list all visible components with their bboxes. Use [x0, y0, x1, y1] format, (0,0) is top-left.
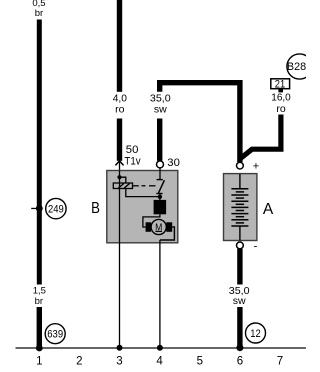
- svg-text:6: 6: [237, 356, 243, 368]
- svg-text:50: 50: [126, 144, 139, 156]
- starter B body: [107, 171, 178, 243]
- wire 1,5 br lower segment track1: [37, 307, 42, 349]
- rail dot track3: [117, 345, 123, 351]
- svg-text:B: B: [91, 200, 100, 217]
- terminal box 21: [271, 78, 290, 90]
- stub tick at connection 249: [31, 208, 36, 209]
- wire 0,5 br upper segment track1: [37, 20, 42, 285]
- horizontal battery feed wire 35,0 top: [160, 83, 240, 162]
- contact block: [154, 200, 167, 214]
- motor right lead loop: [160, 227, 175, 240]
- coil ground lead to rail track3: [119, 177, 120, 348]
- svg-text:639: 639: [47, 329, 63, 341]
- lead junction to contact block: [159, 194, 160, 201]
- rail dot track1: [36, 345, 43, 352]
- svg-text:16,0: 16,0: [271, 92, 291, 104]
- wire 35,0 sw mid segment to terminal 30: [157, 119, 162, 161]
- rail dot track6: [236, 344, 243, 351]
- motor ground lead to rail track4: [159, 240, 160, 348]
- svg-text:2: 2: [76, 356, 82, 368]
- switch output junction dot: [158, 195, 162, 199]
- svg-text:ro: ro: [115, 104, 124, 116]
- stub below box 21: [278, 89, 283, 93]
- terminal 30 circle: [157, 161, 164, 168]
- battery internal bottom lead: [239, 226, 240, 240]
- battery A body: [224, 174, 257, 241]
- solenoid coil hatched winding: [113, 183, 132, 189]
- motor circle M: [151, 219, 166, 234]
- svg-text:-: -: [254, 241, 258, 253]
- switch blade: [158, 180, 164, 193]
- svg-text:sw: sw: [154, 104, 167, 116]
- connection circle B289 (cut at edge): [287, 54, 312, 79]
- rail dot track4: [157, 345, 163, 351]
- connection circle 249: [46, 198, 66, 218]
- lead contact block to motor left brush: [143, 214, 160, 227]
- svg-text:B289: B289: [287, 61, 306, 73]
- svg-text:br: br: [35, 296, 43, 307]
- wire 35,0 sw battery minus segment track6: [237, 249, 242, 285]
- svg-text:+: +: [253, 161, 259, 173]
- wire 35,0 sw lower to rail track6: [237, 307, 242, 348]
- solenoid top lead: [120, 177, 126, 183]
- lead from connector 50 into starter: [119, 162, 120, 178]
- svg-text:ro: ro: [276, 103, 285, 115]
- motor left brush: [146, 222, 152, 232]
- battery minus terminal: [237, 242, 244, 249]
- svg-text:4: 4: [156, 356, 163, 368]
- lead terminal 30 into starter: [159, 168, 160, 180]
- wire 16,0 ro from box 21 to battery plus: [240, 115, 281, 159]
- svg-text:1: 1: [36, 356, 42, 368]
- junction dot connection 249: [36, 205, 43, 212]
- svg-text:br: br: [35, 8, 43, 19]
- connector T1v arrow: [115, 161, 123, 166]
- lead 50 inside starter: [119, 171, 120, 178]
- svg-text:T1v: T1v: [124, 156, 140, 168]
- svg-text:3: 3: [116, 356, 122, 368]
- motor right brush: [166, 222, 172, 232]
- battery plus terminal: [237, 162, 244, 169]
- svg-text:7: 7: [277, 356, 283, 368]
- svg-text:30: 30: [167, 157, 180, 169]
- svg-text:A: A: [263, 201, 274, 218]
- svg-text:249: 249: [48, 204, 64, 216]
- switch upper contact bar: [157, 179, 163, 180]
- connection circle 639: [45, 324, 65, 344]
- switch lower contact bar: [156, 193, 162, 194]
- connection circle 12: [246, 323, 266, 343]
- svg-text:sw: sw: [233, 295, 246, 307]
- wire 4,0 ro lower segment track3: [117, 119, 122, 161]
- svg-text:12: 12: [250, 328, 261, 340]
- svg-text:21: 21: [275, 78, 285, 90]
- battery internal top lead: [239, 174, 240, 189]
- solenoid core linkage dashed line: [133, 185, 156, 187]
- coil to switch lead: [126, 188, 159, 197]
- wire 4,0 ro upper segment track3: [117, 0, 122, 92]
- battery plates: [231, 189, 248, 226]
- ground rail current track line: [16, 347, 307, 348]
- junction dot solenoid feed: [117, 175, 121, 179]
- svg-text:5: 5: [197, 356, 203, 368]
